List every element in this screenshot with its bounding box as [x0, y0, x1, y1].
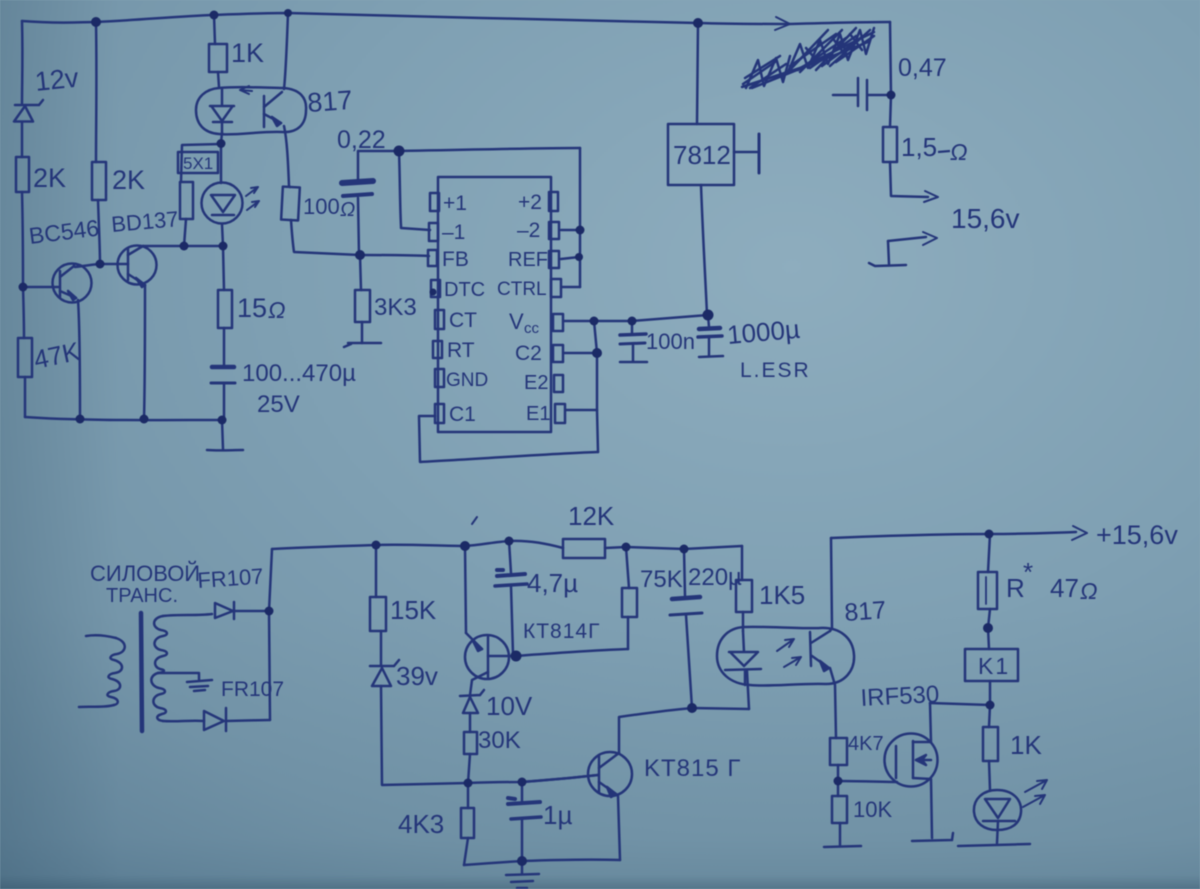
svg-text:V: V	[509, 309, 524, 334]
svg-text:REF: REF	[508, 249, 548, 271]
svg-text:4,7µ: 4,7µ	[527, 568, 578, 598]
svg-text:СИЛОВОЙ: СИЛОВОЙ	[90, 561, 200, 586]
svg-text:100: 100	[303, 194, 340, 219]
svg-text:+1: +1	[443, 192, 467, 215]
svg-text:4K7: 4K7	[848, 733, 884, 755]
svg-text:5X1: 5X1	[183, 154, 213, 173]
svg-text:30K: 30K	[478, 727, 521, 754]
svg-text:7812: 7812	[673, 140, 731, 170]
svg-text:+15,6v: +15,6v	[1096, 520, 1178, 550]
svg-text:10K: 10K	[853, 797, 892, 822]
svg-text:Ω: Ω	[950, 139, 968, 165]
svg-text:DTC: DTC	[444, 279, 485, 301]
svg-text:25V: 25V	[257, 391, 300, 418]
svg-text:2K: 2K	[33, 163, 66, 193]
svg-text:E2: E2	[524, 372, 548, 394]
svg-text:R: R	[1006, 573, 1025, 603]
svg-text:CT: CT	[449, 309, 477, 332]
svg-text:Ω: Ω	[268, 297, 286, 323]
svg-text:15,6v: 15,6v	[951, 203, 1020, 234]
svg-text:FB: FB	[442, 248, 469, 271]
svg-text:0,47: 0,47	[898, 54, 947, 82]
svg-text:KT815 Г: KT815 Г	[644, 755, 741, 782]
svg-text:КТ814Г: КТ814Г	[523, 620, 600, 643]
svg-text:1K: 1K	[231, 38, 264, 68]
svg-text:L.ESR: L.ESR	[740, 359, 811, 382]
svg-text:IRF530: IRF530	[860, 681, 940, 712]
svg-text:FR107: FR107	[221, 678, 284, 701]
svg-text:12v: 12v	[33, 63, 80, 97]
svg-text:cc: cc	[524, 320, 540, 337]
svg-text:–1: –1	[442, 221, 465, 244]
svg-text:12K: 12K	[568, 501, 615, 531]
svg-text:*: *	[1023, 557, 1033, 587]
svg-text:C1: C1	[449, 403, 476, 426]
svg-text:CTRL: CTRL	[497, 279, 547, 300]
svg-text:C2: C2	[515, 342, 542, 365]
svg-text:100n: 100n	[646, 329, 695, 354]
svg-text:Ω: Ω	[1080, 578, 1098, 604]
svg-text:–2: –2	[517, 219, 540, 242]
svg-text:47: 47	[1050, 573, 1079, 603]
svg-text:+2: +2	[518, 191, 542, 214]
svg-text:E1: E1	[526, 403, 550, 425]
svg-text:1K5: 1K5	[759, 580, 805, 610]
svg-text:100...470µ: 100...470µ	[242, 360, 356, 387]
svg-text:817: 817	[306, 85, 353, 118]
svg-text:1µ: 1µ	[543, 800, 572, 830]
svg-text:4K3: 4K3	[398, 809, 444, 839]
svg-text:0,22: 0,22	[337, 126, 386, 154]
svg-text:15: 15	[237, 293, 267, 323]
svg-text:817: 817	[843, 596, 887, 627]
svg-text:39v: 39v	[396, 661, 438, 691]
svg-text:1,5: 1,5	[901, 132, 937, 162]
svg-text:3K3: 3K3	[374, 294, 417, 321]
svg-text:75K: 75K	[640, 566, 683, 593]
svg-text:FR107: FR107	[197, 563, 265, 593]
svg-text:GND: GND	[446, 370, 488, 391]
svg-text:220µ: 220µ	[688, 564, 742, 591]
svg-text:2K: 2K	[112, 165, 145, 195]
svg-text:15K: 15K	[390, 595, 437, 625]
svg-text:K1: K1	[978, 653, 1010, 679]
svg-text:1K: 1K	[1010, 730, 1042, 760]
svg-text:ТРАНС.: ТРАНС.	[106, 585, 178, 607]
svg-text:1000µ: 1000µ	[726, 314, 801, 350]
svg-text:10V: 10V	[486, 691, 533, 721]
svg-text:Ω: Ω	[340, 199, 355, 221]
svg-text:RT: RT	[447, 339, 475, 362]
